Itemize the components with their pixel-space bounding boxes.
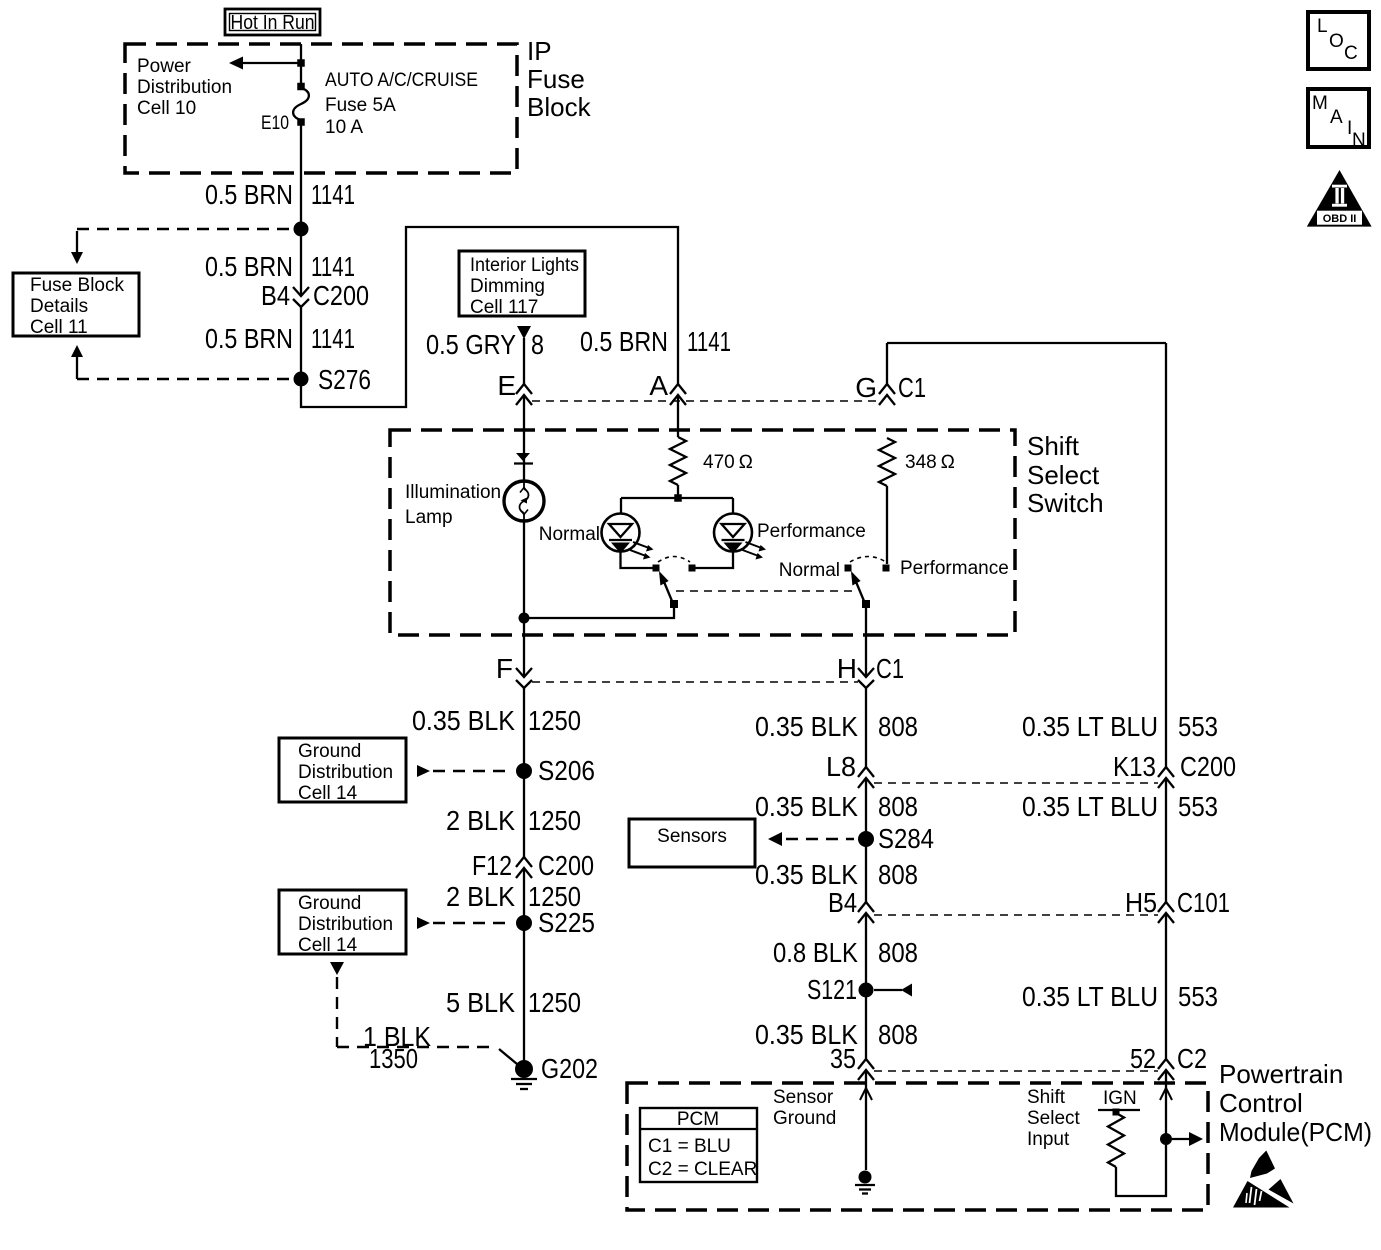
svg-text:C101: C101 xyxy=(1177,887,1230,918)
svg-text:G202: G202 xyxy=(541,1053,598,1084)
svg-text:L: L xyxy=(1317,16,1328,37)
svg-text:Sensor: Sensor xyxy=(773,1087,834,1108)
wire resistor to LED rail xyxy=(677,485,679,498)
svg-text:IP: IP xyxy=(527,36,552,66)
wire H to L8 xyxy=(865,688,867,767)
svg-text:52: 52 xyxy=(1130,1043,1156,1074)
Power Distribution Cell 10 reference xyxy=(137,56,232,119)
connector K13 C200 xyxy=(1113,751,1236,788)
left switch pivot xyxy=(670,600,678,608)
connector 35 xyxy=(830,1043,874,1080)
svg-text:Cell 10: Cell 10 xyxy=(137,98,196,119)
connector B4 C200 (left) xyxy=(261,280,369,311)
svg-text:0.5 BRN: 0.5 BRN xyxy=(205,179,293,210)
wire E into switch xyxy=(523,395,525,481)
label 0.5 BRN 1141 (middle) xyxy=(205,251,355,282)
svg-text:Fuse: Fuse xyxy=(527,64,585,94)
switch mechanical link dashed xyxy=(676,590,856,592)
PCM connector legend box xyxy=(640,1108,757,1182)
svg-text:470 Ω: 470 Ω xyxy=(703,452,753,473)
fuse E10 AUTO A/C/CRUISE 10A xyxy=(261,70,478,138)
svg-text:5 BLK: 5 BLK xyxy=(446,987,515,1018)
label 2 BLK 1250 (above F12) xyxy=(446,805,581,836)
connector L8 xyxy=(826,751,874,788)
svg-text:Select: Select xyxy=(1027,460,1100,490)
svg-text:E10: E10 xyxy=(261,113,289,134)
svg-text:1350: 1350 xyxy=(369,1043,418,1074)
svg-text:808: 808 xyxy=(878,791,918,822)
Ground Distribution Cell 14 box (upper) xyxy=(279,738,406,804)
arrow and dashed line to S206 xyxy=(417,765,512,777)
label 0.5 BRN 1141 (lower) xyxy=(205,323,355,354)
svg-text:O: O xyxy=(1329,31,1344,52)
dashed connector line E-A-G xyxy=(532,400,877,402)
svg-text:C1 = BLU: C1 = BLU xyxy=(648,1136,731,1157)
LED Performance xyxy=(696,498,767,568)
label 0.35 LT BLU 553 (above K13) xyxy=(1022,711,1218,742)
svg-text:Fuse Block: Fuse Block xyxy=(30,275,124,296)
svg-text:Block: Block xyxy=(527,92,592,122)
svg-text:S121: S121 xyxy=(807,974,857,1005)
Shift Select Input label xyxy=(1027,1087,1081,1150)
label 0.5 BRN 1141 (wire A) xyxy=(580,326,731,357)
svg-text:0.8 BLK: 0.8 BLK xyxy=(773,937,858,968)
wire S276 around to connector A xyxy=(301,227,678,407)
svg-text:Performance: Performance xyxy=(757,521,866,542)
shift select up arrow xyxy=(1160,1088,1172,1100)
svg-text:0.35 LT BLU: 0.35 LT BLU xyxy=(1022,791,1158,822)
svg-text:Cell 11: Cell 11 xyxy=(30,317,88,338)
svg-text:Input: Input xyxy=(1027,1129,1070,1150)
wire junction down to connector F xyxy=(523,618,525,677)
dashed connector line F-H xyxy=(532,681,858,683)
splice S121 xyxy=(807,974,912,1005)
label 2 BLK 1250 (below F12) xyxy=(446,881,581,912)
svg-text:Select: Select xyxy=(1027,1108,1081,1129)
svg-text:C200: C200 xyxy=(313,280,369,311)
label 0.8 BLK 808 xyxy=(773,937,918,968)
svg-text:B4: B4 xyxy=(261,280,290,311)
svg-text:S276: S276 xyxy=(318,364,371,395)
svg-text:0.5 BRN: 0.5 BRN xyxy=(205,323,293,354)
label 0.35 BLK 808 (above S284) xyxy=(755,791,918,822)
wire 35 into PCM sensor ground xyxy=(865,1070,867,1170)
wire B4 to 35 xyxy=(865,913,867,1059)
svg-text:Cell 14: Cell 14 xyxy=(298,935,358,956)
arrow from Interior Lights Dimming into wire E xyxy=(517,326,531,339)
svg-text:Details: Details xyxy=(30,296,88,317)
Powertrain Control Module label xyxy=(1219,1059,1372,1147)
svg-text:M: M xyxy=(1312,93,1328,114)
svg-text:S225: S225 xyxy=(538,907,595,938)
LED rail junction square xyxy=(674,494,682,502)
connector F xyxy=(496,653,532,688)
svg-text:Powertrain: Powertrain xyxy=(1219,1059,1343,1089)
wire 52 into PCM shift select input xyxy=(1116,1070,1166,1196)
svg-text:0.35 BLK: 0.35 BLK xyxy=(755,711,858,742)
svg-text:N: N xyxy=(1352,130,1366,151)
svg-text:Lamp: Lamp xyxy=(405,507,453,528)
svg-text:2 BLK: 2 BLK xyxy=(446,881,515,912)
svg-text:808: 808 xyxy=(878,711,918,742)
wire resistor to Performance contact xyxy=(886,486,888,564)
right switch blade xyxy=(851,571,864,601)
svg-text:C200: C200 xyxy=(1180,751,1236,782)
svg-text:C1: C1 xyxy=(898,372,926,403)
ground G202 xyxy=(511,1053,598,1089)
label 0.5 BRN 1141 (upper) xyxy=(205,179,355,210)
svg-text:Module(PCM): Module(PCM) xyxy=(1219,1117,1372,1147)
wire from Hot In Run into fuse xyxy=(300,44,302,86)
svg-text:Illumination: Illumination xyxy=(405,482,501,503)
svg-text:H5: H5 xyxy=(1125,887,1157,918)
svg-text:0.35 BLK: 0.35 BLK xyxy=(412,705,515,736)
connector 52 C2 xyxy=(1130,1043,1207,1080)
left switch contacts xyxy=(653,565,696,572)
svg-text:Cell 14: Cell 14 xyxy=(298,783,358,804)
LED Normal xyxy=(602,498,654,568)
svg-text:Sensors: Sensors xyxy=(657,826,727,847)
connector G C1 xyxy=(855,372,926,405)
svg-text:A: A xyxy=(1330,107,1343,128)
svg-text:808: 808 xyxy=(878,859,918,890)
left switch blade xyxy=(659,571,672,601)
svg-text:Control: Control xyxy=(1219,1088,1303,1118)
svg-text:L8: L8 xyxy=(826,751,856,782)
wire A into switch xyxy=(677,395,679,437)
svg-text:Normal: Normal xyxy=(779,560,840,581)
svg-text:0.5 BRN: 0.5 BRN xyxy=(580,326,668,357)
ground wire F12 to G202 xyxy=(523,868,525,1069)
Interior Lights Dimming Cell 117 box xyxy=(459,251,585,318)
IP Fuse Block label xyxy=(527,36,592,122)
junction node shift select xyxy=(1160,1133,1172,1145)
svg-text:0.35 BLK: 0.35 BLK xyxy=(755,859,858,890)
svg-text:Shift: Shift xyxy=(1027,1087,1066,1108)
svg-text:348 Ω: 348 Ω xyxy=(905,452,955,473)
OBD II symbol xyxy=(1307,170,1372,227)
left contact dashed arc xyxy=(658,557,690,563)
svg-text:C: C xyxy=(1344,43,1358,64)
svg-text:1250: 1250 xyxy=(528,705,581,736)
Ground Distribution Cell 14 box (lower) xyxy=(279,890,406,956)
wire lamp to junction xyxy=(523,521,525,618)
label 5 BLK 1250 xyxy=(446,987,581,1018)
svg-text:0.5 GRY: 0.5 GRY xyxy=(426,329,516,360)
label 0.35 LT BLU 553 (below K13) xyxy=(1022,791,1218,822)
dashed connector line 35-52 xyxy=(874,1070,1158,1072)
svg-text:0.35 LT BLU: 0.35 LT BLU xyxy=(1022,711,1158,742)
wire right pivot to connector H xyxy=(865,608,867,677)
svg-text:1141: 1141 xyxy=(311,251,355,282)
right contact dashed arc xyxy=(850,557,886,563)
ESD sensitive symbol xyxy=(1233,1151,1294,1208)
wire H5 to 52 xyxy=(1165,913,1167,1059)
splice S225 xyxy=(516,907,595,938)
arrow to Power Distribution xyxy=(229,57,305,70)
svg-text:S284: S284 xyxy=(878,823,934,854)
svg-text:Fuse 5A: Fuse 5A xyxy=(325,95,396,116)
right switch contacts xyxy=(845,565,890,572)
wire LT BLU from G corner down to K13 xyxy=(1165,343,1167,767)
svg-text:Switch: Switch xyxy=(1027,488,1104,518)
svg-text:F: F xyxy=(496,653,513,684)
svg-text:Normal: Normal xyxy=(539,524,600,545)
svg-text:H: H xyxy=(837,653,857,684)
svg-text:Distribution: Distribution xyxy=(137,77,232,98)
Sensors box xyxy=(629,819,755,867)
Shift Select Switch label xyxy=(1027,431,1104,518)
arrow and dashed line to S225 xyxy=(417,917,512,929)
svg-text:553: 553 xyxy=(1178,981,1218,1012)
svg-text:35: 35 xyxy=(830,1043,856,1074)
LOC symbol box xyxy=(1308,12,1369,69)
connector E xyxy=(497,370,532,405)
svg-text:Cell 117: Cell 117 xyxy=(470,297,538,318)
connector H5 C101 xyxy=(1125,887,1230,923)
resistor 348 ohm xyxy=(879,438,955,486)
dashed reference line to S276 xyxy=(77,378,293,380)
svg-text:AUTO A/C/CRUISE: AUTO A/C/CRUISE xyxy=(325,70,478,91)
ground wire F to F12 xyxy=(523,688,525,857)
right switch pivot xyxy=(862,600,870,608)
splice S284 xyxy=(858,823,934,854)
PCM pull-up resistor xyxy=(1108,1113,1124,1167)
wire 0.5 BRN 1141 fuse to B4 xyxy=(300,122,302,296)
IP Fuse Block dashed box xyxy=(125,44,517,173)
connector B4 (right) xyxy=(828,887,874,923)
svg-text:F12: F12 xyxy=(472,850,512,881)
svg-text:2 BLK: 2 BLK xyxy=(446,805,515,836)
PCM internal ground xyxy=(855,1171,875,1194)
svg-text:1141: 1141 xyxy=(311,323,355,354)
svg-text:C2 = CLEAR: C2 = CLEAR xyxy=(648,1159,757,1180)
dashed reference line to Fuse Block Details (top) xyxy=(77,228,293,230)
arrow to shift select input xyxy=(1172,1132,1203,1146)
svg-text:C1: C1 xyxy=(876,653,904,684)
svg-text:1141: 1141 xyxy=(687,326,731,357)
svg-text:808: 808 xyxy=(878,937,918,968)
svg-text:Power: Power xyxy=(137,56,192,77)
junction node to Fuse Block Details xyxy=(294,222,309,237)
arrow and dashed line Sensors to S284 xyxy=(768,832,854,846)
svg-text:1141: 1141 xyxy=(311,179,355,210)
svg-text:10 A: 10 A xyxy=(325,117,363,138)
dashed connector line B4-H5 xyxy=(874,914,1158,916)
label 1 BLK 1350 xyxy=(363,1021,431,1074)
svg-text:IGN: IGN xyxy=(1103,1088,1137,1109)
resistor 470 ohm xyxy=(670,437,753,485)
svg-text:Distribution: Distribution xyxy=(298,914,393,935)
svg-text:Ground: Ground xyxy=(298,893,361,914)
svg-text:B4: B4 xyxy=(828,887,857,918)
svg-text:808: 808 xyxy=(878,1019,918,1050)
diode marker above lamp xyxy=(514,453,533,464)
svg-text:553: 553 xyxy=(1178,791,1218,822)
LED top rail xyxy=(621,497,733,499)
dashed connector line L8-K13 xyxy=(874,782,1158,784)
up arrow from Fuse Block Details box xyxy=(71,345,83,379)
svg-text:C200: C200 xyxy=(538,850,594,881)
wire K13 to H5 xyxy=(1165,778,1167,902)
down arrow from lower Ground Distribution box xyxy=(330,962,344,975)
wire 0.5 GRY 8 to connector E xyxy=(523,338,525,384)
label 0.35 BLK 808 (above 35) xyxy=(755,1019,918,1050)
svg-text:Performance: Performance xyxy=(900,558,1009,579)
wire L8 to B4 xyxy=(865,778,867,902)
connector F12 C200 xyxy=(472,850,594,881)
Hot In Run box xyxy=(225,9,320,35)
splice S206 xyxy=(516,755,595,786)
svg-text:E: E xyxy=(497,370,516,401)
illumination lamp xyxy=(504,481,544,521)
svg-text:S206: S206 xyxy=(538,755,595,786)
svg-text:Hot In Run: Hot In Run xyxy=(231,12,315,34)
svg-text:Dimming: Dimming xyxy=(470,276,545,297)
wire junction to left switch pivot xyxy=(524,608,674,618)
sensor ground up arrow xyxy=(860,1088,872,1100)
label 0.35 BLK 808 (above L8) xyxy=(755,711,918,742)
label 0.35 LT BLU 553 (at S121 level) xyxy=(1022,981,1218,1012)
svg-text:PCM: PCM xyxy=(677,1109,719,1130)
svg-text:OBD II: OBD II xyxy=(1323,213,1357,225)
label 0.5 GRY 8 xyxy=(426,329,544,360)
splice S276 xyxy=(294,364,372,395)
svg-text:Interior Lights: Interior Lights xyxy=(470,255,579,276)
svg-text:Ground: Ground xyxy=(298,741,361,762)
dashed 1 BLK 1350 path to G202 xyxy=(337,977,517,1064)
svg-text:C2: C2 xyxy=(1177,1043,1207,1074)
svg-text:0.35 LT BLU: 0.35 LT BLU xyxy=(1022,981,1158,1012)
svg-text:553: 553 xyxy=(1178,711,1218,742)
label 0.35 BLK 808 (below S284) xyxy=(755,859,918,890)
Illumination Lamp label xyxy=(405,482,501,528)
IGN supply xyxy=(1098,1088,1140,1116)
svg-text:0.5 BRN: 0.5 BRN xyxy=(205,251,293,282)
wire G up and over to PCM column xyxy=(887,343,1166,384)
connector A xyxy=(649,370,686,405)
svg-text:Ground: Ground xyxy=(773,1108,836,1129)
svg-text:G: G xyxy=(855,372,877,403)
svg-text:Distribution: Distribution xyxy=(298,762,393,783)
down arrow into Fuse Block Details box xyxy=(71,231,83,264)
PCM dashed box xyxy=(627,1083,1208,1210)
Sensor Ground label xyxy=(773,1087,836,1129)
connector H C1 xyxy=(837,653,904,688)
Shift Select Switch dashed box xyxy=(390,430,1015,635)
svg-text:8: 8 xyxy=(531,329,544,360)
svg-text:Shift: Shift xyxy=(1027,431,1080,461)
lamp junction node xyxy=(519,613,530,624)
svg-text:1250: 1250 xyxy=(528,805,581,836)
svg-text:1250: 1250 xyxy=(528,987,581,1018)
svg-text:K13: K13 xyxy=(1113,751,1156,782)
MAIN symbol box xyxy=(1308,89,1369,151)
Fuse Block Details Cell 11 box xyxy=(13,273,139,338)
svg-text:0.35 BLK: 0.35 BLK xyxy=(755,791,858,822)
label 0.35 BLK 1250 xyxy=(412,705,581,736)
svg-text:A: A xyxy=(649,370,668,401)
